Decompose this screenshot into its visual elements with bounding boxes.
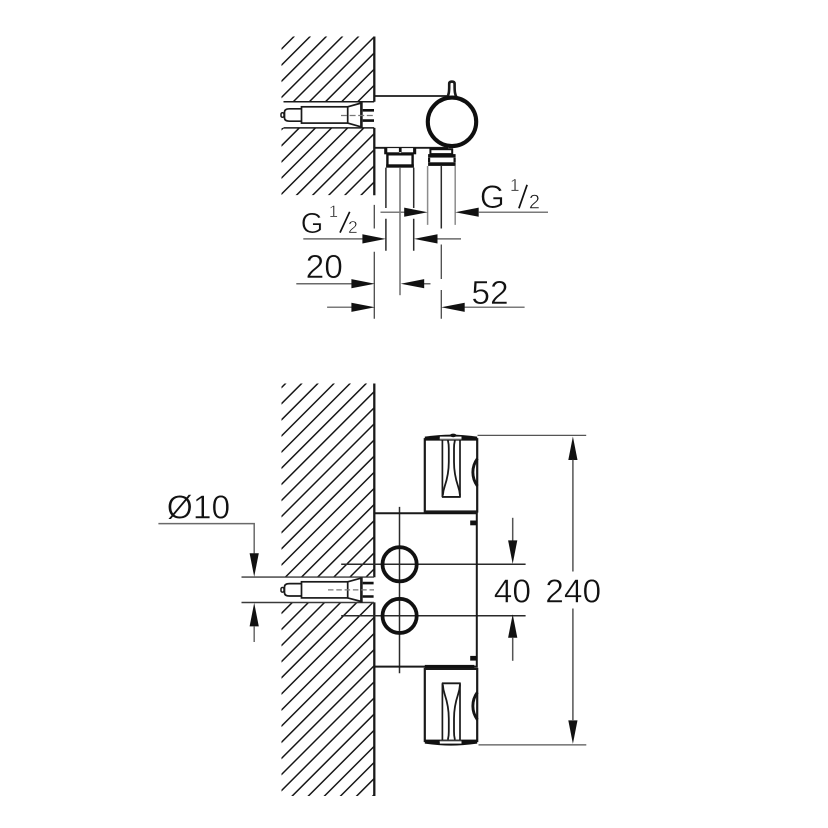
wall section upper part (top view)	[282, 37, 375, 102]
dimension 40: lower line	[512, 638, 514, 661]
screw body (top view)	[302, 107, 348, 123]
dimension G 1/2 right: line	[381, 211, 549, 213]
body/handle joint bar bottom	[425, 665, 475, 668]
svg-text:1: 1	[510, 175, 520, 195]
screw nub (bottom view)	[281, 588, 284, 593]
screw centre dash line (top view)	[341, 115, 374, 117]
dimension D10: upper arrow	[250, 553, 259, 577]
handle bottom: side button arc	[473, 692, 478, 719]
screw tip section (bottom view)	[285, 584, 302, 596]
body outline (bottom view)	[374, 513, 477, 666]
handle top: side button arc	[473, 459, 478, 486]
left port flange block (top view)	[384, 148, 416, 154]
dimension 240: top arrow	[568, 437, 577, 461]
circle centre line upper (bottom view)	[341, 563, 525, 565]
screw tip section (top view)	[285, 109, 302, 121]
handle top: outer shell	[425, 439, 477, 511]
knob stem (top view)	[447, 82, 456, 98]
handle top: goblet outer lines	[442, 440, 460, 497]
dimension 52: line	[327, 306, 524, 308]
svg-text:52: 52	[471, 275, 508, 312]
svg-text:2: 2	[348, 217, 358, 237]
left pipe centre line (top view)	[399, 168, 401, 296]
svg-text:240: 240	[545, 574, 601, 611]
dimension 240: bottom arrow	[568, 720, 577, 744]
handle bottom: cap window	[440, 741, 462, 744]
svg-text:40: 40	[494, 574, 531, 611]
svg-text:20: 20	[306, 249, 343, 286]
dimension D10: lower arrow	[250, 603, 259, 627]
right pipe centre line (top view)	[440, 166, 442, 229]
handle top: cap window	[440, 437, 462, 440]
dimension G 1/2 right: label	[480, 175, 540, 215]
handle top: cap lens	[425, 435, 477, 441]
screw body (bottom view)	[302, 582, 348, 598]
mounting hole outline (top view)	[284, 102, 375, 128]
mounting hole outline / diameter extension lines (bottom view)	[242, 577, 375, 602]
dimension G 1/2 right: arrows	[404, 208, 428, 217]
wall section upper part (bottom view)	[282, 384, 374, 578]
handle top: goblet base line	[442, 496, 461, 498]
screw sleeve bands (top view)	[363, 110, 374, 120]
handle top: cap bump	[450, 434, 457, 438]
dimension 52: arrows	[351, 303, 375, 312]
svg-text:2: 2	[529, 192, 540, 214]
dimension 40: upper arrow	[508, 540, 517, 564]
screw head face (top view)	[360, 102, 363, 128]
handle top: cap window line	[440, 438, 462, 440]
screw head face (bottom view)	[360, 577, 363, 602]
dimension 240: line	[572, 460, 574, 720]
wall section lower part (bottom view)	[282, 603, 374, 797]
dimension 20: arrows	[351, 279, 375, 288]
dimension G 1/2 left: label	[301, 202, 358, 240]
inlet circle lower (bottom view)	[383, 599, 417, 633]
wall face line (bottom view)	[373, 384, 375, 797]
dimension 240: top extension line	[478, 434, 587, 436]
dimension G 1/2 left: arrows	[362, 234, 386, 243]
left port flange white tooth 2	[402, 148, 414, 152]
body clip tick upper	[470, 521, 477, 526]
handle bottom: cap window line	[440, 740, 462, 742]
screw head cone (bottom view)	[348, 578, 362, 601]
screw nub (top view)	[281, 113, 284, 118]
right port flange (top view)	[430, 149, 452, 154]
screw head cone (top view)	[348, 103, 362, 127]
dimension 240: bottom extension line	[479, 744, 587, 746]
handle bottom: goblet funnel	[443, 685, 460, 740]
dimension G 1/2 left: line	[303, 238, 461, 240]
inlet circle upper (bottom view)	[383, 547, 417, 581]
wall face extension line (top view)	[373, 205, 375, 319]
handle top: goblet funnel	[443, 440, 460, 495]
left pipe walls (top view)	[386, 168, 414, 251]
circle centre line lower (bottom view)	[341, 615, 525, 617]
knob circle white fill (top view)	[426, 96, 478, 148]
svg-text:Ø10: Ø10	[167, 490, 230, 527]
right port nut band 1 (top view)	[428, 154, 456, 158]
right port nut white row side edges	[429, 158, 455, 163]
svg-text:1: 1	[329, 202, 338, 221]
svg-text:G: G	[301, 208, 324, 240]
left port flange notch	[399, 152, 402, 153]
dimension D10: lower tail line	[253, 626, 255, 642]
screw sleeve bands (bottom view)	[363, 583, 374, 596]
dimension 40: lower arrow	[508, 614, 517, 638]
body clip tick lower	[470, 656, 477, 661]
dimension 40: upper line	[512, 518, 514, 541]
valve body outline (top view)	[374, 96, 450, 148]
screw centre dash line (bottom view)	[328, 589, 374, 591]
left port nut (top view)	[387, 154, 412, 166]
knob circle ring (top view)	[428, 98, 476, 146]
right pipe centre extension line (top view)	[440, 245, 442, 319]
svg-text:G: G	[480, 179, 505, 215]
handle bottom: cap lens	[425, 740, 477, 746]
wall face line (top view)	[373, 37, 375, 196]
body/handle joint bar top	[425, 510, 472, 513]
right pipe walls (top view)	[428, 166, 456, 225]
dimension 20: line	[296, 283, 430, 285]
handle bottom: goblet outer lines	[442, 683, 460, 740]
body vertical centre line (bottom view)	[399, 507, 401, 673]
left port nut bottom bar	[386, 164, 414, 167]
wall section lower part (top view)	[282, 128, 375, 195]
right port nut white row	[428, 158, 456, 163]
left port flange white tooth 1	[387, 148, 399, 152]
dimension D10: leader line	[158, 524, 254, 554]
right port nut band 2	[428, 162, 456, 166]
handle bottom: goblet top line	[442, 682, 461, 684]
handle bottom: outer shell	[425, 669, 477, 741]
